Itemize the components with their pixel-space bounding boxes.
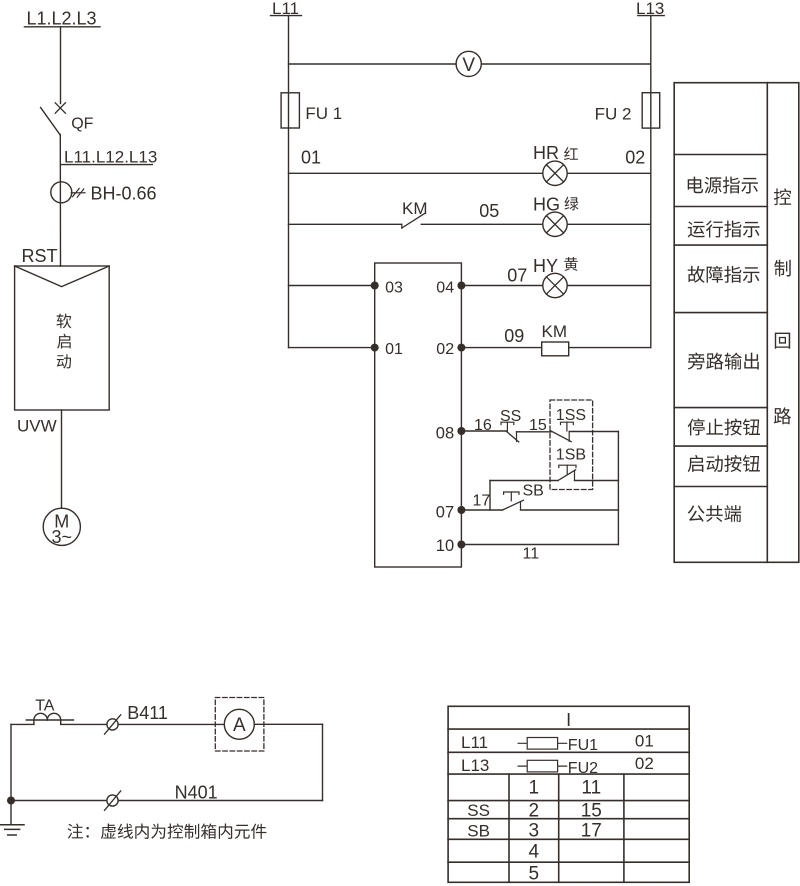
motor M	[43, 508, 80, 547]
wire A-down	[254, 724, 322, 800]
svg-text:16: 16	[474, 417, 492, 434]
wire SS-1SS	[517, 431, 552, 433]
wire 01-HR	[289, 172, 651, 174]
svg-text:L11: L11	[461, 733, 488, 752]
soft starter label	[57, 314, 72, 369]
label 05	[479, 201, 499, 221]
svg-text:SB: SB	[467, 821, 490, 840]
wire	[60, 27, 62, 104]
wire HG right	[421, 223, 651, 225]
svg-text:04: 04	[436, 279, 454, 296]
svg-text:11: 11	[581, 778, 601, 799]
wire 04-HY	[461, 285, 650, 287]
svg-text:2: 2	[529, 800, 540, 821]
label N401	[175, 782, 218, 802]
bus label L13	[636, 0, 664, 18]
svg-text:UVW: UVW	[17, 417, 57, 436]
svg-text:HG: HG	[533, 194, 560, 214]
svg-text:L11.L12.L13: L11.L12.L13	[64, 148, 157, 167]
svg-text:15: 15	[581, 800, 602, 821]
label 01	[301, 148, 321, 168]
svg-text:N401: N401	[175, 782, 218, 802]
wire 1SB branch	[490, 481, 558, 511]
pushbutton SS NC	[500, 408, 521, 442]
svg-text:FU2: FU2	[568, 760, 598, 777]
svg-text:HR: HR	[533, 143, 559, 163]
ground	[1, 825, 25, 835]
svg-text:17: 17	[473, 493, 491, 510]
svg-text:03: 03	[385, 279, 403, 296]
svg-text:10: 10	[436, 537, 454, 555]
label HY yellow	[533, 256, 578, 276]
soft starter RST box	[15, 246, 110, 410]
legend row run indicator	[688, 221, 760, 238]
svg-text:FU 2: FU 2	[595, 105, 632, 124]
node 02	[436, 341, 465, 358]
connector B411	[105, 715, 121, 734]
connector N401	[105, 791, 121, 810]
bus bar L1.L2.L3	[24, 26, 100, 28]
svg-text:3~: 3~	[52, 527, 73, 547]
svg-text:QF: QF	[71, 115, 93, 132]
bus bar L11	[271, 15, 302, 17]
svg-text:07: 07	[507, 265, 527, 285]
ammeter A	[224, 709, 254, 739]
svg-text:4: 4	[529, 841, 540, 862]
svg-text:01: 01	[301, 148, 321, 168]
wire 08-SS	[461, 430, 506, 432]
node 10	[436, 537, 466, 555]
lamp HG	[543, 212, 567, 236]
label 16	[474, 417, 492, 434]
wire 02-KM	[461, 347, 650, 349]
label TA	[35, 697, 55, 714]
control box dashed outline	[550, 400, 593, 490]
svg-text:SS: SS	[500, 408, 521, 425]
fuse FU2	[595, 93, 660, 128]
svg-text:KM: KM	[542, 322, 568, 341]
node 01	[371, 341, 403, 358]
wiring table grid	[448, 706, 689, 882]
wire SB-rail	[521, 509, 619, 511]
bus label L11	[272, 0, 299, 18]
wiring table header I	[566, 710, 571, 730]
svg-text:I: I	[566, 710, 571, 730]
legend row fault indicator	[688, 266, 760, 283]
svg-text:08: 08	[436, 425, 454, 443]
wire N401	[11, 800, 323, 802]
wire voltmeter line	[289, 63, 651, 65]
wire 07-SB	[461, 509, 502, 511]
svg-text:A: A	[233, 715, 246, 736]
legend row power indicator	[688, 177, 758, 194]
svg-text:15: 15	[529, 417, 547, 434]
wire 1SS-rail	[569, 431, 618, 433]
label UVW	[17, 417, 57, 436]
svg-text:HY: HY	[533, 256, 558, 276]
svg-text:1SS: 1SS	[556, 407, 586, 424]
node 04	[436, 279, 465, 296]
wiring table row SS-2-15	[467, 800, 602, 821]
legend row start button	[688, 455, 760, 472]
fuse FU1	[281, 93, 342, 128]
wire HG left	[289, 223, 402, 225]
svg-text:SB: SB	[523, 483, 544, 500]
svg-text:02: 02	[436, 341, 454, 358]
svg-text:01: 01	[635, 731, 654, 750]
pushbutton 1SS NC	[551, 407, 586, 442]
svg-text:V: V	[462, 55, 475, 76]
wire L13 rail	[650, 16, 652, 348]
wire to 01	[289, 347, 375, 349]
wire	[61, 410, 63, 508]
bus label L11.L12.L13	[64, 148, 157, 167]
svg-text:09: 09	[504, 326, 524, 346]
wire right rail	[617, 432, 619, 545]
svg-text:11: 11	[523, 545, 540, 562]
svg-text:05: 05	[479, 201, 499, 221]
lamp HY	[543, 273, 567, 297]
wiring table row L13	[461, 754, 654, 777]
svg-text:L13: L13	[461, 756, 489, 775]
label 07	[507, 265, 527, 285]
svg-text:02: 02	[625, 148, 645, 168]
svg-text:L1.L2.L3: L1.L2.L3	[27, 8, 97, 28]
svg-text:RST: RST	[22, 246, 58, 266]
pushbutton 1SB NO	[556, 446, 586, 480]
legend row common terminal	[688, 505, 742, 522]
bus bar L13	[638, 15, 664, 17]
label HR red	[533, 143, 578, 163]
legend row stop button	[688, 419, 760, 436]
wire TA-A	[11, 723, 224, 725]
bus bar L11.L12.L13	[61, 164, 152, 166]
wiring table row SB-3-17	[467, 821, 602, 842]
svg-text:5: 5	[529, 864, 540, 885]
wiring table row 1-11	[529, 778, 602, 799]
current transformer TA	[26, 713, 73, 724]
svg-text:TA: TA	[35, 697, 55, 714]
wire	[59, 135, 61, 267]
current transformer BH-0.66	[51, 182, 157, 204]
wire 10-rail	[461, 544, 618, 546]
label 17	[473, 493, 491, 510]
svg-text:1: 1	[529, 778, 540, 799]
label 11	[523, 545, 540, 562]
svg-text:07: 07	[436, 504, 454, 522]
node ground junction	[7, 797, 15, 805]
label 02	[625, 148, 645, 168]
voltmeter V	[456, 51, 481, 76]
svg-text:01: 01	[385, 341, 403, 358]
pushbutton SB NO	[503, 483, 544, 511]
svg-text:B411: B411	[127, 703, 168, 723]
soft starter terminal box	[375, 263, 462, 567]
svg-text:17: 17	[581, 821, 602, 842]
wire to 03	[289, 285, 375, 287]
lamp HR	[543, 161, 567, 185]
node 07	[436, 504, 466, 522]
wire L11 rail	[288, 16, 290, 348]
legend row bypass output	[688, 353, 759, 370]
svg-text:3: 3	[529, 821, 540, 842]
breaker QF	[41, 103, 94, 135]
bus label L1.L2.L3	[27, 8, 97, 28]
coil KM	[542, 322, 569, 356]
svg-text:1SB: 1SB	[556, 446, 586, 463]
node 03	[371, 279, 403, 296]
wire 1SB-rail	[575, 480, 619, 482]
label B411	[127, 703, 168, 723]
svg-text:02: 02	[635, 754, 654, 773]
legend table grid	[674, 83, 799, 563]
svg-text:BH-0.66: BH-0.66	[91, 183, 157, 203]
contact KM NO	[402, 199, 428, 228]
svg-text:KM: KM	[402, 199, 428, 218]
ammeter box dashed	[215, 698, 264, 752]
legend column control loop	[774, 188, 791, 424]
label 15	[529, 417, 547, 434]
wiring table row L11	[461, 731, 654, 754]
label 09	[504, 326, 524, 346]
svg-text:FU1: FU1	[568, 737, 598, 754]
node 08	[436, 425, 466, 443]
svg-text:SS: SS	[467, 801, 490, 820]
svg-text:FU 1: FU 1	[305, 104, 342, 123]
label HG green	[533, 194, 579, 214]
note text	[68, 824, 267, 839]
wiring table row 5	[529, 864, 540, 885]
wiring table row 4	[529, 841, 540, 862]
wire TA-ground	[10, 724, 12, 824]
